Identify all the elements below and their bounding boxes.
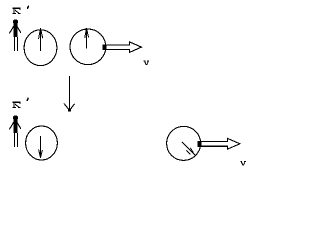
clock A hand arrow pointing up [39,28,43,51]
clock A' circle (bottom left) [26,126,58,160]
clock A circle (top left) [24,30,57,66]
frame label K' (bottom) [13,98,29,108]
clock A' hand arrow pointing down [39,136,43,158]
frame label K' (top) [13,6,29,14]
label v (top) [144,60,149,65]
clock B circle (top middle) [70,29,106,65]
velocity block arrow (bottom) [198,138,240,149]
transition arrow (middle, pointing down) [64,76,75,112]
clock B' hand arrow pointing down-right [182,142,195,155]
clock B' circle (bottom right) [167,126,201,160]
velocity block arrow (top) [103,42,142,53]
observer stick figure (bottom) [9,115,21,147]
clock B hand arrow pointing up [85,28,89,49]
label v (bottom) [240,161,245,166]
observer stick figure (top) [9,19,21,51]
